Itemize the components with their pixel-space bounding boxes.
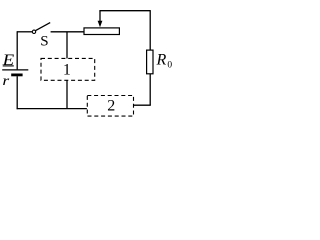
- wire junction branch down to box 1: [66, 32, 68, 59]
- label E with underline: [2, 52, 15, 69]
- svg-text:1: 1: [63, 61, 71, 78]
- svg-text:S: S: [40, 34, 48, 50]
- box 2 (dashed component box): [87, 96, 133, 117]
- wire bottom rail from left corner to box 2 left side: [17, 108, 87, 110]
- label 2: [107, 98, 115, 115]
- wire right vertical lower from R0 to bottom corner: [149, 74, 151, 105]
- rheostat body (slide resistor rectangle): [84, 28, 119, 35]
- wire from switch fixed contact to rheostat left terminal: [51, 31, 84, 33]
- label 1: [63, 61, 71, 78]
- box 1 (dashed component box): [41, 58, 95, 80]
- slider arrow shaft: [99, 11, 101, 24]
- wire top from slider to right corner: [99, 10, 150, 12]
- slider arrow head pointing down onto rheostat: [98, 21, 103, 28]
- svg-text:0: 0: [167, 61, 172, 71]
- svg-text:R: R: [156, 52, 167, 69]
- resistor R0 body: [147, 50, 153, 74]
- switch S lever (open blade): [36, 23, 51, 31]
- svg-text:2: 2: [107, 98, 115, 115]
- label r: [2, 73, 10, 88]
- battery E positive plate (long thin): [2, 69, 28, 71]
- wire left vertical from top corner down to battery positive plate: [16, 31, 18, 69]
- label S: [40, 34, 48, 50]
- wire right vertical upper from top corner to R0: [149, 10, 151, 50]
- label R0: [156, 52, 173, 71]
- svg-text:r: r: [2, 73, 10, 88]
- battery E negative plate (short thick): [11, 74, 22, 77]
- switch S pivot circle: [32, 30, 35, 33]
- wire from box 1 bottom to bottom rail: [66, 80, 68, 108]
- wire stub from right corner to box 2 right side: [134, 104, 151, 106]
- wire top-left from corner to switch pivot: [17, 31, 32, 33]
- wire left vertical from battery negative plate to bottom corner: [16, 76, 18, 109]
